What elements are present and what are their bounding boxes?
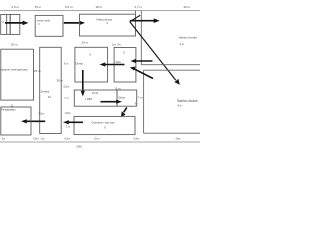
wire arrow sablon duduk to jahit xyxy=(134,69,153,79)
gudang kain second cell xyxy=(10,15,20,35)
svg-text:16 m: 16 m xyxy=(94,136,100,140)
sablon berdiri west wall xyxy=(140,11,142,65)
svg-text:35 m: 35 m xyxy=(57,78,64,82)
svg-text:0,5m: 0,5m xyxy=(134,136,140,140)
jahit box xyxy=(114,48,136,83)
svg-text:Sablon berdiri: Sablon berdiri xyxy=(179,36,198,40)
svg-text:1m 7m: 1m 7m xyxy=(112,43,122,47)
svg-text:Obras: Obras xyxy=(75,62,83,66)
site boundary bottom line xyxy=(0,141,200,143)
svg-text:20 m: 20 m xyxy=(184,5,191,9)
svg-text:Sablon duduk: Sablon duduk xyxy=(177,99,198,103)
svg-text:Jahit: Jahit xyxy=(115,60,121,64)
svg-text:5,5m: 5,5m xyxy=(39,112,45,116)
svg-text:10 m: 10 m xyxy=(82,41,89,45)
svg-text:3: 3 xyxy=(106,21,108,25)
setengah jadi box xyxy=(1,49,34,100)
svg-text:7 m: 7 m xyxy=(64,96,68,100)
svg-text:20m: 20m xyxy=(176,136,181,140)
svg-text:15 m: 15 m xyxy=(35,5,42,9)
wire arrow setrika to pengepakan xyxy=(26,120,46,122)
svg-text:7 m: 7 m xyxy=(138,95,144,99)
svg-text:10: 10 xyxy=(48,95,52,99)
obras box xyxy=(75,47,108,82)
svg-text:7 &8S: 7 &8S xyxy=(85,97,93,101)
svg-text:2m: 2m xyxy=(2,136,6,140)
overdeck box xyxy=(74,116,135,134)
big open arrowhead into meja potong xyxy=(130,15,140,21)
wire arrow obras down xyxy=(82,70,84,92)
svg-text:5: 5 xyxy=(123,51,125,55)
svg-text:4 a: 4 a xyxy=(180,42,185,46)
wall stub above meja potong right edge xyxy=(135,11,137,15)
svg-text:9: 9 xyxy=(104,125,106,129)
svg-text:0,5m: 0,5m xyxy=(65,111,71,115)
wire arrow gudang to mesin pola xyxy=(5,22,24,24)
wire arrow G1 to G2 xyxy=(101,101,117,103)
svg-text:8 m: 8 m xyxy=(116,86,122,90)
wire arrow sablon berdiri to jahit xyxy=(135,60,153,62)
svg-text:mesin pola: mesin pola xyxy=(37,18,51,22)
svg-text:0,5m 1m: 0,5m 1m xyxy=(33,136,44,140)
svg-text:4: 4 xyxy=(2,20,4,24)
svg-text:impanan setengah jadi: impanan setengah jadi xyxy=(0,67,28,71)
wire arrow mesin pola to meja potong xyxy=(64,22,81,24)
svg-text:Pengepakan: Pengepakan xyxy=(1,108,16,112)
setrika box xyxy=(40,47,62,133)
top border line xyxy=(0,10,200,12)
svg-text:0,7 m: 0,7 m xyxy=(135,5,143,9)
wire arrow G2 to overdeck xyxy=(124,108,127,113)
diagonal arrow to sablon duduk xyxy=(130,22,176,81)
svg-text:0,5m: 0,5m xyxy=(64,84,70,88)
svg-text:0,5m: 0,5m xyxy=(65,136,71,140)
svg-text:63M: 63M xyxy=(77,144,82,148)
sablon duduk south wall xyxy=(144,132,200,134)
svg-text:0,5 m: 0,5 m xyxy=(65,5,73,9)
svg-text:Meja potong: Meja potong xyxy=(97,17,113,21)
svg-text:3 m: 3 m xyxy=(66,124,70,128)
svg-text:Obras: Obras xyxy=(118,96,126,100)
wire arrow meja potong to sablon berdiri xyxy=(130,20,155,22)
gudang kain divider xyxy=(6,15,8,35)
svg-text:Overdeck / nge cam: Overdeck / nge cam xyxy=(92,120,115,124)
svg-text:8 m: 8 m xyxy=(64,61,68,65)
svg-text:Setrika: Setrika xyxy=(41,89,50,93)
wire arrow jahit to obras xyxy=(105,64,125,66)
sablon duduk west wall xyxy=(143,70,145,133)
svg-text:6: 6 xyxy=(90,53,92,57)
svg-text:20 m: 20 m xyxy=(11,42,18,46)
mesin pola box xyxy=(35,15,63,36)
wire arrow overdeck to setrika xyxy=(68,121,83,123)
svg-text:4 b: 4 b xyxy=(178,104,183,108)
svg-text:0,5 m: 0,5 m xyxy=(12,5,20,9)
box gudang kain xyxy=(1,15,11,35)
corridor line upper xyxy=(141,64,200,66)
meja potong box xyxy=(80,14,136,36)
corridor line lower xyxy=(144,69,200,71)
svg-text:10 M: 10 M xyxy=(92,91,99,95)
svg-text:18 m: 18 m xyxy=(96,5,103,9)
box station obras second xyxy=(117,90,137,106)
pengepakan box xyxy=(1,107,31,135)
box stations 7 and 8 xyxy=(74,90,117,106)
